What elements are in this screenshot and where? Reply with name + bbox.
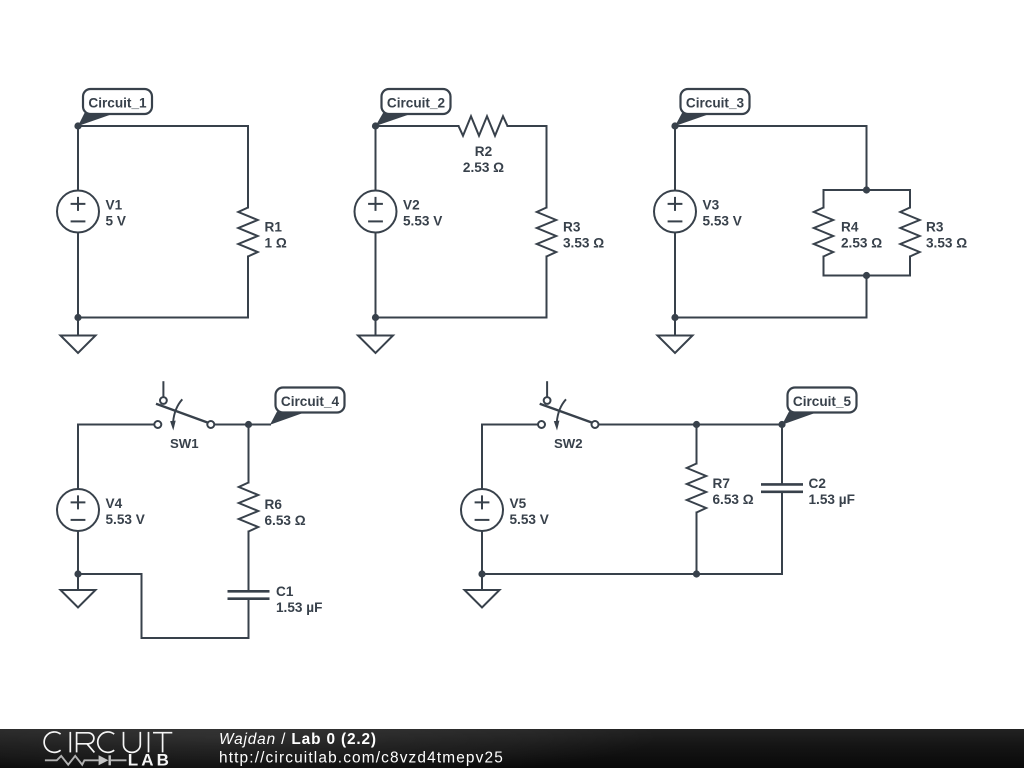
CircuitLab logo wordmark CIRCUIT	[44, 732, 172, 753]
svg-text:R6: R6	[265, 497, 283, 512]
ground: Circuit_5	[465, 574, 500, 608]
svg-text:6.53 Ω: 6.53 Ω	[713, 492, 754, 507]
resistor R6	[239, 483, 258, 532]
svg-text:V2: V2	[403, 198, 420, 213]
svg-text:LAB: LAB	[128, 750, 172, 768]
svg-text:3.53 Ω: 3.53 Ω	[926, 236, 967, 251]
node: Circuit_4 SW1-R6 junction	[245, 421, 252, 428]
svg-text:C2: C2	[809, 476, 827, 491]
svg-text:V5: V5	[510, 496, 527, 511]
wire: Circuit_4 R6 top lead	[248, 425, 250, 483]
wire: Circuit_2 left rail upper	[375, 126, 377, 191]
voltage source V3	[654, 191, 696, 233]
voltage source V1	[57, 191, 99, 233]
node: Circuit_2 top-left junction	[372, 122, 379, 129]
wire: Circuit_3 R4 bottom lead	[823, 257, 825, 276]
callout label Circuit_2	[376, 89, 451, 126]
wire: Circuit_5 R7 bottom lead	[696, 513, 698, 575]
wire: Circuit_3 R3 bottom lead	[909, 257, 911, 276]
label: V1 name and value	[106, 198, 126, 229]
svg-text:3.53 Ω: 3.53 Ω	[563, 236, 604, 251]
svg-text:R7: R7	[713, 476, 730, 491]
label: C2 name and value	[809, 476, 855, 507]
wire: Circuit_1 left rail lower	[77, 233, 79, 318]
ground: Circuit_1	[61, 318, 96, 354]
wire: Circuit_4 top rail right of SW1	[214, 424, 270, 426]
svg-text:R1: R1	[265, 220, 283, 235]
ground: Circuit_2	[358, 318, 393, 354]
resistor R4	[814, 208, 833, 257]
wire: Circuit_5 C2 top lead	[781, 425, 783, 485]
resistor R3 (Circuit_2)	[537, 208, 556, 257]
svg-text:Circuit_3: Circuit_3	[686, 95, 745, 110]
wire: Circuit_1 right rail upper	[247, 126, 249, 208]
label: V2 name and value	[403, 198, 442, 229]
svg-text:1.53 µF: 1.53 µF	[809, 492, 855, 507]
svg-text:R2: R2	[475, 144, 493, 159]
callout label Circuit_4	[270, 388, 345, 425]
wire: Circuit_5 V5 top lead	[481, 425, 483, 490]
wire: Circuit_3 left rail lower	[674, 233, 676, 318]
node: Circuit_1 ground junction	[74, 314, 81, 321]
wire: Circuit_5 R7 top lead	[696, 425, 698, 464]
node: Circuit_2 ground junction	[372, 314, 379, 321]
resistor R2	[459, 116, 508, 135]
label: R4 name and value	[841, 220, 882, 251]
switch SW2	[538, 381, 599, 430]
capacitor C2	[761, 484, 803, 491]
wire: Circuit_1 bottom rail	[78, 317, 248, 319]
label: C1 name and value	[276, 584, 322, 615]
wire: Circuit_4 return path C1 to ground	[78, 574, 249, 638]
callout label Circuit_5	[782, 388, 857, 425]
wire: Circuit_3 parallel bottom bus	[824, 275, 911, 277]
node: Circuit_5 R7 bottom junction	[693, 570, 700, 577]
wire: Circuit_3 top rail	[675, 125, 867, 127]
node: Circuit_5 R7 top junction	[693, 421, 700, 428]
wire: Circuit_4 R6 to C1	[248, 532, 250, 592]
svg-text:6.53 Ω: 6.53 Ω	[265, 513, 306, 528]
wire: Circuit_4 V4 bottom lead	[77, 531, 79, 574]
voltage source V2	[355, 191, 397, 233]
wire: Circuit_3 right rail lower	[866, 276, 868, 318]
callout label Circuit_1	[78, 89, 152, 126]
svg-text:Circuit_4: Circuit_4	[281, 394, 340, 409]
label: V3 name and value	[703, 198, 742, 229]
wire: Circuit_1 top rail	[78, 125, 248, 127]
wire: Circuit_2 top rail right of R2	[508, 125, 547, 127]
node: Circuit_3 parallel bottom junction	[863, 272, 870, 279]
wire: Circuit_1 right rail lower	[247, 257, 249, 318]
svg-text:R3: R3	[563, 220, 581, 235]
wire: Circuit_1 left rail upper	[77, 126, 79, 191]
node: Circuit_4 ground junction	[74, 570, 81, 577]
wire: Circuit_3 bottom rail	[675, 317, 867, 319]
svg-text:SW1: SW1	[170, 436, 199, 451]
svg-text:2.53 Ω: 2.53 Ω	[841, 236, 882, 251]
node: Circuit_3 ground junction	[671, 314, 678, 321]
wire: Circuit_2 left rail lower	[375, 233, 377, 318]
callout label Circuit_3	[675, 89, 750, 126]
svg-text:V3: V3	[703, 198, 720, 213]
svg-text:5.53 V: 5.53 V	[403, 214, 442, 229]
svg-text:Circuit_1: Circuit_1	[88, 95, 147, 110]
node: Circuit_1 top-left junction	[74, 122, 81, 129]
svg-text:5.53 V: 5.53 V	[703, 214, 742, 229]
label: R7 name and value	[713, 476, 754, 507]
svg-text:1.53 µF: 1.53 µF	[276, 600, 322, 615]
footer bar highlight glow	[0, 729, 1024, 768]
label: V5 name and value	[510, 496, 549, 527]
wire: Circuit_3 right drop to parallel pair	[866, 126, 868, 190]
wire: Circuit_5 V5 bottom lead	[481, 531, 483, 574]
resistor R7	[687, 464, 706, 513]
label: R3 name and value (Circuit_3)	[926, 220, 967, 251]
switch SW1	[154, 381, 214, 430]
wire: Circuit_2 right rail upper	[546, 126, 548, 208]
capacitor C1	[228, 591, 270, 598]
svg-text:Circuit_5: Circuit_5	[793, 394, 852, 409]
svg-text:C1: C1	[276, 584, 294, 599]
node: Circuit_3 parallel top junction	[863, 186, 870, 193]
label: R6 name and value	[265, 497, 306, 528]
svg-text:R3: R3	[926, 220, 944, 235]
svg-text:5.53 V: 5.53 V	[106, 512, 145, 527]
svg-text:5 V: 5 V	[106, 214, 126, 229]
svg-text:2.53 Ω: 2.53 Ω	[463, 160, 504, 175]
wire: Circuit_4 V4 top lead	[77, 425, 79, 490]
ground: Circuit_4	[61, 574, 96, 608]
svg-text:Circuit_2: Circuit_2	[387, 95, 446, 110]
label: V4 name and value	[106, 496, 145, 527]
ground: Circuit_3	[658, 318, 693, 354]
node: Circuit_5 C2 top junction	[778, 421, 785, 428]
wire: Circuit_5 top rail right of SW2	[599, 424, 783, 426]
wire: Circuit_3 R3 top lead	[909, 190, 911, 208]
node: Circuit_5 ground junction	[478, 570, 485, 577]
label: R1 name and value	[265, 220, 287, 251]
svg-text:5.53 V: 5.53 V	[510, 512, 549, 527]
voltage source V5	[461, 489, 503, 531]
wire: Circuit_5 C2 bottom lead	[781, 492, 783, 574]
wire: Circuit_3 left rail upper	[674, 126, 676, 191]
svg-text:http://circuitlab.com/c8vzd4tm: http://circuitlab.com/c8vzd4tmepv25	[219, 750, 504, 767]
wire: Circuit_2 bottom rail	[376, 317, 547, 319]
svg-text:SW2: SW2	[554, 436, 583, 451]
svg-text:V4: V4	[106, 496, 123, 511]
resistor R1	[238, 208, 257, 257]
wire: Circuit_4 top rail left of SW1	[78, 424, 154, 426]
wire: Circuit_3 parallel top bus	[824, 189, 911, 191]
wire: Circuit_2 right rail lower	[546, 257, 548, 318]
label: R3 name and value (Circuit_2)	[563, 220, 604, 251]
wire: Circuit_3 R4 top lead	[823, 190, 825, 208]
resistor R3 (Circuit_3)	[900, 208, 919, 257]
logo resistor + diode symbol	[45, 755, 127, 765]
footer background bar	[0, 729, 1024, 768]
svg-text:1 Ω: 1 Ω	[265, 236, 287, 251]
svg-text:R4: R4	[841, 220, 859, 235]
svg-text:V1: V1	[106, 198, 123, 213]
wire: Circuit_2 top rail left of R2	[376, 125, 459, 127]
svg-text:Wajdan / Lab 0 (2.2): Wajdan / Lab 0 (2.2)	[219, 731, 377, 748]
voltage source V4	[57, 489, 99, 531]
label: R2 name and value	[463, 144, 504, 175]
wire: Circuit_5 bottom rail	[482, 573, 782, 575]
wire: Circuit_5 top rail left of SW2	[482, 424, 538, 426]
node: Circuit_3 top-left junction	[671, 122, 678, 129]
